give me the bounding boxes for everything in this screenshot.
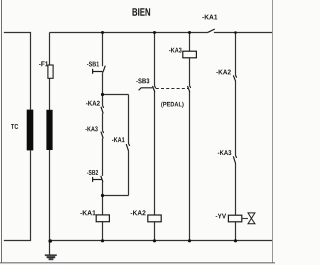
frame left border bbox=[1, 0, 3, 263]
wire column4 KA3 contact to valve YV bbox=[235, 163, 237, 215]
wire branch bottom horizontal (back to node B) bbox=[103, 195, 129, 197]
label -F1 bbox=[39, 61, 48, 66]
wire column1 SB1 to node A to KA2 contact bbox=[102, 72, 104, 105]
pushbutton SB1 (NC) bbox=[93, 66, 106, 74]
coil KA2 bbox=[148, 215, 161, 222]
label TC bbox=[11, 124, 18, 129]
label -KA1 (coil) bbox=[80, 210, 95, 215]
wire column1 SB2 to node B bbox=[102, 182, 104, 196]
pedal contact (column3, NO) bbox=[188, 86, 190, 92]
contact seat stubs bbox=[103, 75, 237, 157]
transformer TC winding 2 bbox=[46, 110, 52, 150]
wire secondary lower (winding 2 down to ground node) bbox=[49, 150, 51, 255]
title BIEN bbox=[133, 8, 151, 15]
label -KA1 (branch) bbox=[112, 137, 125, 142]
contact KA1 aux (branch, NO) bbox=[126, 144, 128, 151]
contact KA2 (column1, NO) bbox=[101, 107, 103, 114]
label -KA1 (top) bbox=[202, 15, 217, 20]
wire column1 coil KA1 to bottom bus bbox=[102, 222, 104, 241]
label -SB1 bbox=[87, 62, 99, 67]
ground bbox=[45, 255, 57, 259]
wire column1 node B to coil KA1 bbox=[102, 196, 104, 215]
wire column2 top (bus to SB3) bbox=[154, 33, 156, 86]
wire branch vertical upper (to KA1 aux contact) bbox=[128, 95, 130, 144]
pushbutton SB3 pedal contact (column2, NO) bbox=[153, 86, 155, 92]
coil KA3 bbox=[183, 51, 197, 58]
junction top bus col1 bbox=[101, 31, 104, 34]
wire column1 top (bus to SB1) bbox=[102, 33, 104, 67]
label -KA3 (coil) bbox=[169, 48, 182, 53]
label -KA2 (column4) bbox=[216, 70, 231, 75]
label -KA3 (column1) bbox=[85, 126, 97, 131]
valve link wire bbox=[242, 218, 248, 220]
wire branch top horizontal (node A right) bbox=[103, 94, 129, 96]
contact KA3 (column4, NO) bbox=[233, 156, 235, 163]
wire column2 coil KA2 to bottom bus bbox=[154, 222, 156, 241]
label -KA3 (column4) bbox=[218, 150, 232, 155]
pushbutton SB2 (NO) bbox=[93, 176, 103, 182]
wire secondary riser x=50 (bus corner down to winding 2) bbox=[49, 33, 51, 111]
mechanical link dashed (pedal) bbox=[156, 88, 189, 90]
label -SB2 bbox=[87, 170, 98, 175]
wire column3 coil KA3 to pedal contact bbox=[189, 58, 191, 85]
wire column4 top (bus to KA2 contact) bbox=[235, 33, 237, 75]
junction bottom bus col4 bbox=[234, 239, 237, 242]
frame right border bbox=[272, 0, 274, 263]
frame bottom border bbox=[0, 262, 275, 264]
pedal lever of SB3 bbox=[139, 88, 153, 91]
junction top bus col3 bbox=[188, 31, 191, 34]
junction top bus col2 bbox=[153, 31, 156, 34]
wire column3 top (bus to coil KA3) bbox=[189, 33, 191, 52]
contact KA1 (top bus, NO) bbox=[208, 29, 215, 33]
label -KA2 (column1) bbox=[86, 101, 100, 106]
contact KA3 (column1, NO) bbox=[101, 132, 103, 139]
wire column1 KA2 to KA3 contact bbox=[102, 113, 104, 130]
junction bottom bus col2 bbox=[153, 239, 156, 242]
junction bottom bus ground bbox=[48, 239, 52, 243]
wire top bus left of KA1 contact bbox=[50, 32, 208, 34]
node B junction bbox=[101, 194, 104, 197]
transformer TC winding 1 bbox=[27, 110, 34, 151]
node A junction bbox=[101, 93, 104, 96]
wire column3 pedal contact to bottom bus bbox=[189, 92, 191, 241]
wire branch vertical lower bbox=[128, 151, 130, 196]
wire column1 KA3 to SB2 bbox=[102, 138, 104, 176]
label -KA2 (coil) bbox=[131, 210, 146, 215]
wire primary bottom: winding 1 to left edge bbox=[4, 150, 31, 240]
label -YV bbox=[216, 214, 226, 219]
wire top bus right of KA1 contact bbox=[214, 32, 272, 34]
valve symbol (bowtie) bbox=[248, 213, 255, 224]
coil KA1 bbox=[96, 215, 109, 222]
wire column2 SB3 to coil KA2 bbox=[154, 92, 156, 215]
wire column4 valve YV to bottom bus bbox=[235, 222, 237, 241]
solenoid valve YV coil bbox=[228, 215, 241, 222]
junction bottom bus col3 bbox=[188, 239, 191, 242]
junction top bus col4 bbox=[234, 31, 237, 34]
fuse F1 bbox=[48, 65, 53, 78]
label (PEDAL) bbox=[161, 102, 183, 108]
contact KA2 (column4, NO) bbox=[233, 75, 235, 81]
wire bottom bus bbox=[50, 240, 273, 242]
wire column4 KA2 to KA3 contact bbox=[235, 81, 237, 155]
label -SB3 bbox=[136, 78, 149, 83]
wire primary top: left edge to winding 1 bbox=[4, 33, 31, 110]
junction bottom bus col1 bbox=[101, 239, 104, 242]
